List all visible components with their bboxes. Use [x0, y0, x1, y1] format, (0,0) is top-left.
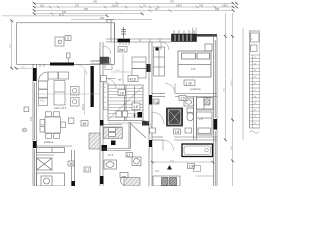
svg-text:jadalnia: jadalnia — [43, 140, 54, 144]
svg-text:2.6: 2.6 — [199, 117, 203, 121]
svg-text:343: 343 — [93, 1, 98, 4]
svg-text:12.5: 12.5 — [108, 153, 114, 157]
svg-text:1.8: 1.8 — [175, 130, 180, 134]
svg-text:120.5: 120.5 — [115, 70, 121, 72]
svg-text:1003.5: 1003.5 — [231, 79, 233, 86]
svg-text:2w1: 2w1 — [119, 48, 125, 52]
svg-text:1 10: 1 10 — [186, 82, 192, 86]
svg-text:754: 754 — [170, 1, 175, 4]
svg-text:240: 240 — [30, 116, 33, 121]
svg-text:148.5: 148.5 — [222, 4, 229, 7]
svg-text:4.9: 4.9 — [155, 169, 159, 173]
svg-text:160: 160 — [191, 67, 196, 71]
svg-text:L1: L1 — [127, 153, 131, 157]
svg-text:1.0: 1.0 — [180, 97, 185, 101]
svg-text:275: 275 — [75, 4, 80, 7]
svg-text:sypialnia: sypialnia — [190, 87, 201, 91]
svg-text:1.9: 1.9 — [189, 165, 194, 169]
svg-text:348: 348 — [215, 8, 220, 11]
svg-text:245.5: 245.5 — [176, 4, 183, 7]
svg-text:1.7: 1.7 — [85, 168, 90, 172]
svg-text:1.8: 1.8 — [133, 105, 138, 109]
svg-text:494.5: 494.5 — [82, 103, 85, 110]
svg-text:140: 140 — [199, 4, 204, 7]
svg-text:(9.1): (9.1) — [59, 13, 64, 16]
svg-text:4.05: 4.05 — [40, 101, 45, 103]
svg-text:261: 261 — [40, 4, 45, 7]
svg-text:126.5: 126.5 — [112, 4, 119, 7]
svg-text:16: 16 — [69, 162, 73, 166]
svg-text:hol: hol — [118, 78, 122, 82]
svg-text:1.8: 1.8 — [119, 91, 124, 95]
svg-text:912: 912 — [100, 17, 105, 20]
svg-text:15: 15 — [82, 122, 86, 126]
svg-text:41.5: 41.5 — [130, 77, 136, 81]
svg-text:406: 406 — [84, 8, 89, 11]
svg-text:salon 24.5: salon 24.5 — [54, 106, 67, 110]
svg-text:laz.: laz. — [156, 101, 160, 105]
